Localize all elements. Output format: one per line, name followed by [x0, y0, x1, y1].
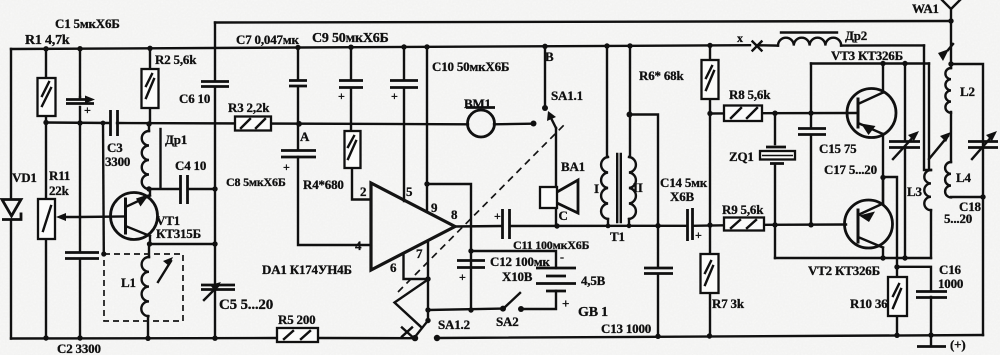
- resistor R9: [724, 218, 764, 231]
- junction dots VT2 base row: [707, 222, 813, 228]
- potentiometer R11 wiper arrow: [56, 213, 80, 221]
- wire: VT2/osc emitter row: [775, 257, 931, 259]
- wire: VT3 emitter to VT2 and R10 jog: [883, 134, 897, 258]
- capacitor C9 (electrolytic): [338, 81, 363, 104]
- capacitor C7: [289, 81, 307, 87]
- svg-text:VT2 КТ326Б: VT2 КТ326Б: [808, 263, 880, 278]
- svg-text:Х6В: Х6В: [670, 189, 694, 204]
- svg-text:C6 10: C6 10: [179, 91, 210, 106]
- capacitor C12 (electrolytic): [457, 261, 485, 285]
- svg-text:VT3 КТ326Б: VT3 КТ326Б: [831, 48, 903, 63]
- switch SA1.1 fixed contact from rail B: [542, 105, 548, 111]
- wire: C9/R4 column to pin 2: [351, 49, 371, 200]
- wire: T1 secondary top drop: [629, 47, 631, 157]
- battery GB1: [536, 250, 576, 311]
- switch SA1.1 input contact: [531, 121, 537, 127]
- svg-text:4: 4: [355, 238, 362, 253]
- resistor R3: [235, 117, 271, 131]
- wire: SA2 feed row: [428, 291, 556, 310]
- svg-text:Др1: Др1: [165, 132, 187, 147]
- svg-text:C17 5...20: C17 5...20: [824, 162, 877, 177]
- junction dots VT3 base row: [707, 110, 813, 116]
- wire: antenna column: [950, 21, 952, 162]
- wire: R1/R11 vertical column: [45, 49, 47, 338]
- wire: R10 C16 stub: [896, 258, 898, 335]
- switch SA1.2 rail contacts: [412, 335, 440, 342]
- svg-text:+: +: [283, 160, 290, 174]
- wire: main rail B (node B net): [11, 45, 750, 49]
- switch SA1.2 throw lever upper: [395, 280, 429, 327]
- wire: C4 line from VT1 collector to bus: [149, 188, 215, 190]
- resistor R7: [701, 254, 719, 293]
- svg-text:L3: L3: [907, 184, 922, 199]
- svg-text:C12 100мк: C12 100мк: [490, 254, 550, 269]
- capacitor C15: [798, 129, 826, 135]
- wire: bottom common rail right part: [437, 335, 983, 338]
- wire: rail B drop to pin 9 and C12 branch: [427, 49, 471, 310]
- svg-text:Др2: Др2: [845, 28, 867, 43]
- svg-text:C: C: [559, 208, 568, 223]
- wire: pin 7 column down to SA1.2: [427, 241, 429, 321]
- capacitor C13: [644, 268, 673, 274]
- wire: R11 wiper to VT1 base: [80, 215, 126, 218]
- junction dots on rail B: [43, 43, 712, 52]
- junction dot antenna to L2: [948, 61, 953, 66]
- resistor R8: [724, 106, 762, 122]
- capacitor C17 (trimmer): [889, 131, 920, 159]
- junction dot pin9 corner: [424, 181, 429, 186]
- resistor R5: [277, 328, 318, 342]
- wire: C6/C5 bus x215: [214, 88, 216, 338]
- svg-text:5: 5: [406, 184, 413, 199]
- svg-text:WA1: WA1: [912, 1, 939, 16]
- junction dots C12 column: [468, 248, 473, 312]
- wire: VT3 top line corner down to L3: [928, 64, 930, 171]
- svg-text:1000: 1000: [938, 276, 963, 291]
- resistor R11 (trimmer): [38, 199, 55, 239]
- svg-text:R6* 68k: R6* 68k: [639, 68, 684, 83]
- svg-text:BM1: BM1: [464, 96, 491, 111]
- wire: bottom rail right corner up: [951, 64, 983, 335]
- wire: R6/R7 column: [709, 46, 711, 336]
- svg-text:+: +: [494, 209, 501, 223]
- svg-text:КТ315Б: КТ315Б: [156, 226, 201, 241]
- wire: SA1.1 drop from rail B: [544, 47, 546, 107]
- capacitor C2: [65, 253, 99, 259]
- wire: C16 branch: [897, 267, 931, 335]
- switch SA1.1 lever: [547, 111, 556, 128]
- svg-text:6: 6: [390, 260, 397, 275]
- svg-text:C9 50мкХ6Б: C9 50мкХ6Б: [312, 31, 389, 46]
- svg-text:Х10В: Х10В: [502, 269, 533, 284]
- junction dots on node A line: [43, 120, 302, 127]
- wire: L4 bottom corner to C18 column: [951, 196, 983, 198]
- svg-text:C10 50мкХ6Б: C10 50мкХ6Б: [432, 59, 509, 74]
- wire: ZQ1 column: [774, 113, 776, 258]
- svg-text:SA2: SA2: [496, 314, 519, 329]
- switch SA2 contact left: [500, 306, 506, 312]
- resistor R6: [702, 60, 719, 99]
- dashed mechanical link SA1.2 to SA1.1: [398, 125, 564, 292]
- wire: shield tap from node line to L1 box: [102, 123, 105, 254]
- X break mark on rail B: [753, 42, 762, 51]
- svg-text:4,5В: 4,5В: [581, 273, 606, 288]
- svg-text:9: 9: [431, 200, 438, 215]
- transformer T1 core: [617, 154, 621, 222]
- svg-text:3300: 3300: [105, 154, 130, 169]
- svg-text:L2: L2: [960, 84, 975, 99]
- wire: VT3 collector top line: [811, 62, 929, 64]
- svg-text:-: -: [560, 250, 564, 264]
- wire: rail A left drop to C6: [214, 23, 216, 81]
- svg-text:C7 0,047мк: C7 0,047мк: [236, 32, 299, 47]
- svg-text:L4: L4: [956, 170, 971, 185]
- junction dot L1 box corner: [101, 251, 106, 256]
- wire: R2 to Dr1 column: [149, 48, 151, 124]
- svg-text:+: +: [695, 228, 702, 242]
- diode VD1 (zener): [2, 200, 21, 220]
- wire: C10 column to pin 5: [403, 49, 405, 201]
- wire: VT1 emitter down through L1 to rail: [148, 244, 149, 338]
- svg-text:II: II: [633, 180, 643, 195]
- svg-text:SA1.1: SA1.1: [551, 88, 583, 103]
- junction dots pin7 column: [425, 276, 430, 323]
- svg-text:C8 5мкХ6Б: C8 5мкХ6Б: [226, 175, 286, 189]
- junction dots on bottom rail: [43, 332, 933, 341]
- wire: T1 winding bottoms to output row: [608, 219, 629, 226]
- junction dot L4 to C18: [980, 194, 985, 199]
- L3/L4 tuning slug arrow: [929, 132, 951, 159]
- svg-text:DA1 К174УН4Б: DA1 К174УН4Б: [262, 262, 352, 277]
- svg-text:R1 4,7k: R1 4,7k: [25, 33, 70, 48]
- svg-text:ZQ1: ZQ1: [729, 149, 754, 164]
- inductor L3: [924, 170, 931, 210]
- svg-text:SA1.2: SA1.2: [438, 317, 470, 332]
- svg-text:C3: C3: [107, 140, 123, 155]
- junction dot rail A antenna: [948, 18, 953, 23]
- svg-text:C15 75: C15 75: [819, 141, 857, 156]
- op-amp DA1 triangle: [371, 183, 455, 270]
- wire: T1 primary top drop: [606, 47, 608, 157]
- microphone BM1: [466, 108, 495, 138]
- svg-text:C2 3300: C2 3300: [57, 341, 101, 355]
- svg-text:+: +: [459, 270, 466, 284]
- transistor VT1 KT315B (NPN): [111, 189, 158, 244]
- wire: VT3 base row: [710, 112, 856, 115]
- svg-text:T1: T1: [610, 229, 625, 244]
- svg-text:R9 5,6k: R9 5,6k: [722, 202, 764, 217]
- svg-text:R11: R11: [49, 168, 70, 183]
- dashed screen box around L1: [104, 254, 183, 321]
- wire: C15 column from VT3 top line to VT2 base row: [810, 64, 812, 226]
- inductor L1: [141, 257, 149, 316]
- wire: VT1 emitter to bus: [149, 243, 215, 245]
- inductor L2: [945, 68, 951, 113]
- wire: C7/C8 column to pin 4: [298, 49, 371, 245]
- svg-text:+: +: [338, 89, 345, 103]
- wire: battery minus link to C12 top: [471, 251, 556, 268]
- wire: output net from op-amp pin 8 to VT2 base row: [455, 225, 846, 227]
- svg-text:R2 5,6k: R2 5,6k: [155, 52, 197, 67]
- svg-text:x: x: [737, 31, 743, 45]
- svg-text:C11 100мкХ6Б: C11 100мкХ6Б: [513, 238, 590, 252]
- inductor Dr1: [142, 124, 161, 189]
- wire: Dr2 drop to L3: [924, 45, 931, 170]
- resistor R4: [345, 131, 361, 168]
- svg-text:+: +: [391, 89, 398, 103]
- wire: C13 column: [630, 115, 659, 337]
- svg-text:+: +: [84, 103, 91, 117]
- svg-text:+: +: [562, 296, 569, 311]
- svg-text:C4 10: C4 10: [175, 158, 206, 173]
- wire: L3 bottom corner: [930, 210, 932, 258]
- capacitor C16: [916, 292, 947, 298]
- capacitor C14 (series electrolytic): [688, 208, 703, 242]
- svg-text:A: A: [300, 129, 310, 144]
- resistor R10: [888, 277, 907, 316]
- ground symbol (+) common: [917, 335, 946, 347]
- junction dot VT1 emitter: [147, 241, 152, 246]
- capacitor C11 (series electrolytic): [494, 209, 510, 239]
- transistor VT2 KT326B (PNP): [845, 178, 893, 249]
- svg-text:7: 7: [416, 246, 423, 261]
- node A horizontal line (input net): [46, 123, 531, 125]
- junction dot VT3 emitter node: [880, 175, 885, 180]
- wire: pin 6 jog to pin 7 column: [404, 255, 429, 279]
- svg-text:5...20: 5...20: [944, 211, 972, 226]
- junction dots emitter row: [880, 255, 907, 260]
- wire: C17 column: [904, 64, 906, 259]
- junction dots on bus x215: [212, 186, 217, 341]
- svg-text:B: B: [545, 49, 554, 64]
- switch SA2 contact right: [518, 306, 524, 312]
- svg-text:22k: 22k: [49, 183, 70, 198]
- svg-text:R5 200: R5 200: [278, 312, 315, 327]
- svg-text:(+): (+): [950, 337, 965, 352]
- svg-text:R7 3k: R7 3k: [712, 296, 745, 311]
- quartz crystal ZQ1: [760, 147, 795, 164]
- capacitor C5 (trimmer): [201, 282, 235, 300]
- junction dot node C: [554, 223, 559, 228]
- resistor R2: [142, 69, 159, 108]
- svg-text:C16: C16: [939, 262, 961, 277]
- svg-text:R4*680: R4*680: [303, 177, 344, 192]
- wire: bottom common rail left part: [11, 337, 415, 340]
- capacitor C8 (electrolytic): [281, 151, 316, 175]
- transistor VT3 KT326B (PNP): [847, 64, 896, 138]
- svg-text:C14 5мк: C14 5мк: [660, 175, 708, 190]
- capacitor C4 (series plates): [181, 175, 188, 204]
- wire: left edge vertical with VD1: [10, 49, 12, 339]
- junction dot R10 C16 node: [894, 264, 899, 269]
- transformer T1 primary winding I: [601, 157, 608, 219]
- wire: top supply rail A: [215, 21, 951, 23]
- wire: speaker feed from SA1.1 pivot: [555, 128, 557, 187]
- svg-text:BA1: BA1: [561, 159, 585, 174]
- svg-text:C5 5...20: C5 5...20: [219, 297, 273, 313]
- capacitor C1 (electrolytic with arrow): [66, 96, 95, 118]
- svg-text:R3 2,2k: R3 2,2k: [228, 100, 270, 115]
- inductor L4: [945, 162, 951, 197]
- switch SA2 lever: [504, 293, 520, 308]
- L1 tuning arrow: [158, 257, 173, 282]
- wire: C1/C2 vertical column: [79, 49, 81, 338]
- antenna coupling diode: [938, 44, 953, 61]
- svg-text:L1: L1: [121, 275, 136, 290]
- switch SA1.2 cross mark: [402, 328, 412, 337]
- switch SA1.2 arm to ground contact: [415, 321, 429, 338]
- junction dot VT1 collector node: [146, 186, 151, 191]
- svg-text:C1 5мкХ6Б: C1 5мкХ6Б: [55, 16, 120, 31]
- svg-text:R8 5,6k: R8 5,6k: [729, 87, 771, 102]
- svg-text:R10 36: R10 36: [850, 296, 888, 311]
- svg-text:VD1: VD1: [12, 170, 37, 185]
- inductor Dr2: [758, 33, 924, 46]
- svg-text:C13 1000: C13 1000: [601, 321, 651, 336]
- svg-text:I: I: [594, 181, 599, 196]
- svg-text:GB 1: GB 1: [578, 305, 608, 320]
- junction dots VT3 top line: [880, 61, 907, 66]
- antenna WA1: [942, 0, 960, 21]
- wire: VT2 collector bottom: [882, 248, 884, 259]
- svg-text:8: 8: [451, 207, 458, 222]
- loudspeaker BA1: [540, 180, 578, 213]
- capacitor C6 (series plates): [201, 82, 229, 87]
- transformer T1 secondary winding II: [629, 157, 636, 219]
- capacitor C10 (electrolytic): [390, 81, 418, 104]
- junction dots T1 bottom row: [606, 112, 661, 229]
- svg-text:2: 2: [360, 184, 366, 199]
- wire: speaker to node C: [555, 208, 557, 226]
- capacitor C18 (trimmer): [968, 131, 998, 159]
- capacitor C3 (series plates): [111, 110, 118, 136]
- resistor R1: [38, 78, 56, 116]
